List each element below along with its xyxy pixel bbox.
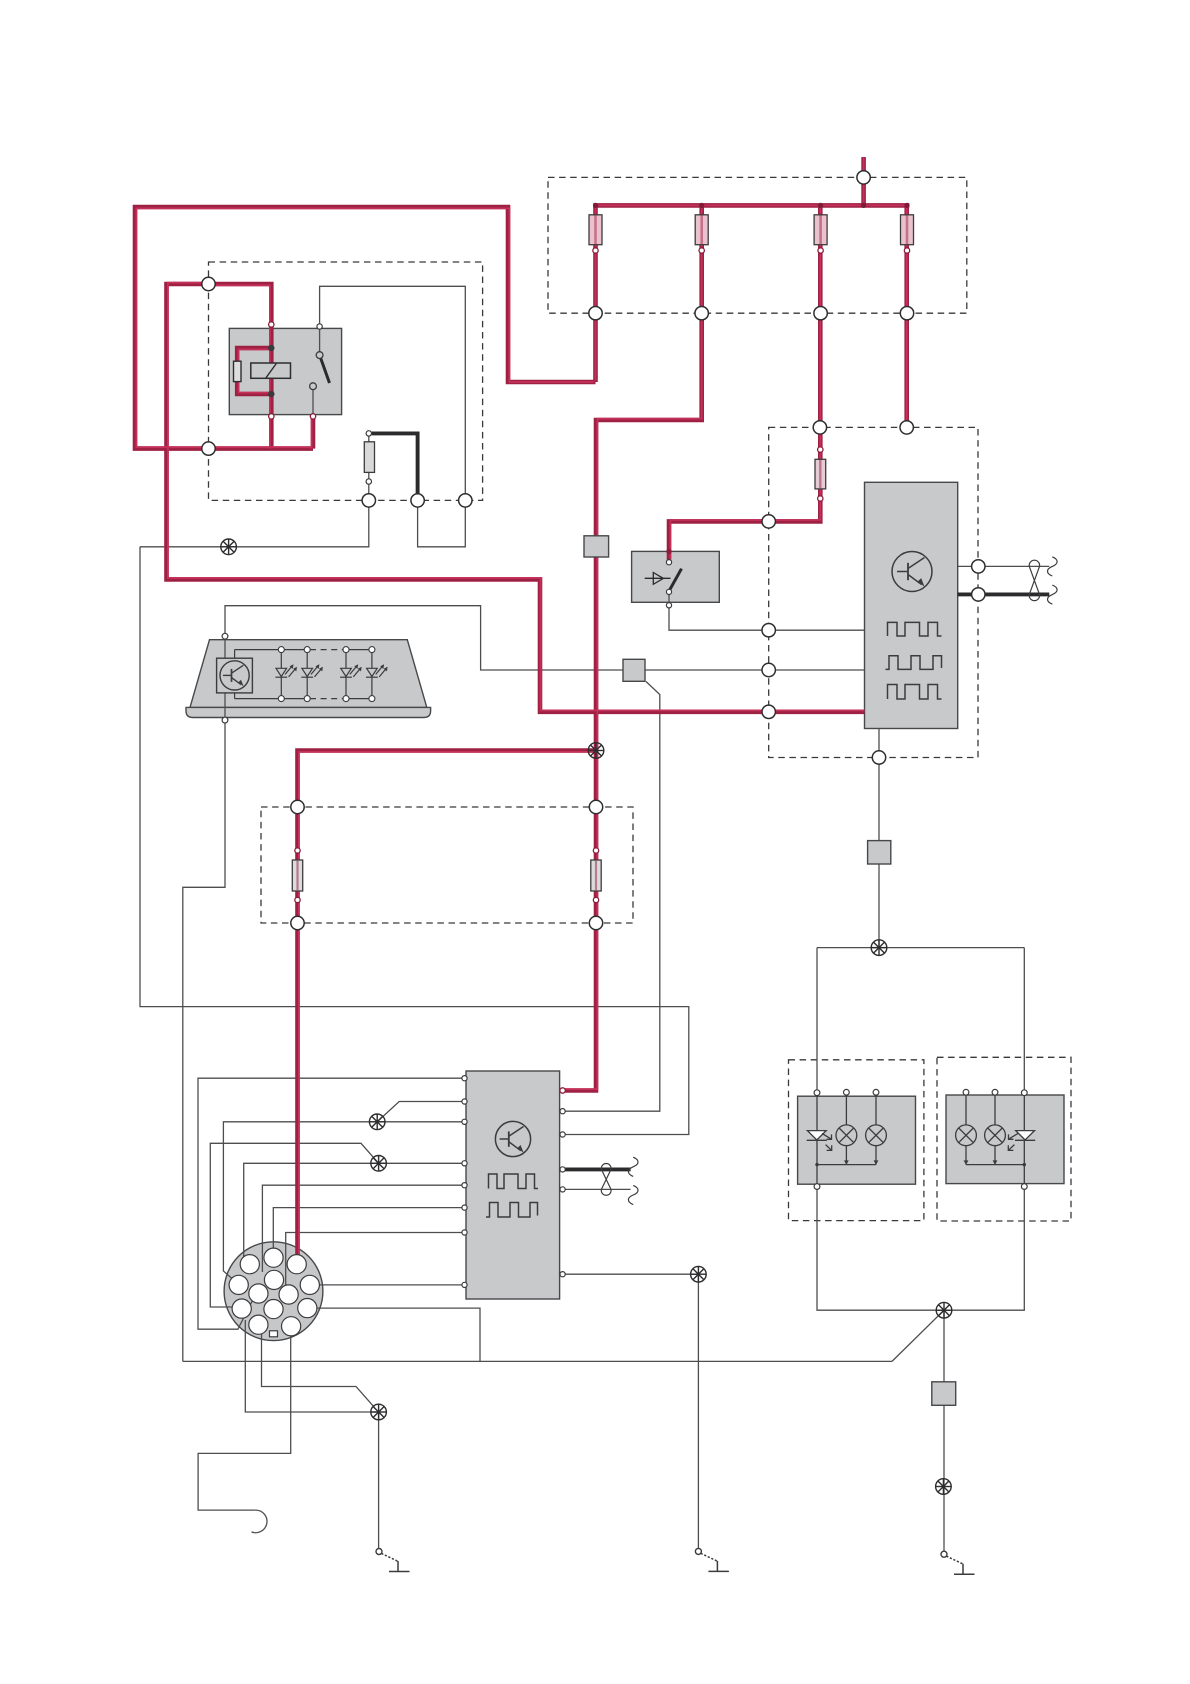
switch S1 pin top: [666, 560, 671, 565]
wire module U2 row1 to connector C1: [198, 1078, 465, 1329]
wire module U2 row3 to connector C1: [223, 1122, 464, 1279]
terminals relay enclosure bottom: [362, 494, 375, 507]
fuse bus tap dots: [593, 203, 910, 208]
wire fuse F2 column: [565, 205, 702, 1090]
wire fuse F5 bottom lead: [368, 472, 370, 497]
fuse F6 (in module enclosure): [815, 459, 826, 489]
wire splice to ground G2: [697, 1274, 699, 1548]
wire lamp splice to connector square: [943, 1310, 945, 1382]
relay switch contact: [310, 383, 317, 390]
relay coil: [251, 363, 291, 378]
fuse F2: [695, 215, 708, 245]
terminal module U1 enclosure bottom: [872, 751, 885, 764]
resistor R1 (relay suppression resistor): [234, 361, 242, 381]
square connector J2 (on LED panel line): [623, 659, 645, 681]
wire fuse box bus: [593, 203, 909, 208]
wire module U1 serial line (thin of twisted pair): [958, 565, 1050, 567]
LED panel top rail: [235, 649, 310, 651]
square connector J1 (on fuse F2 feed): [584, 536, 609, 557]
LED panel body (trapezoid): [190, 640, 427, 708]
transistor symbol in module U2: [495, 1121, 530, 1156]
wire connector square to ground G3: [943, 1405, 945, 1551]
wire switch S1 output to module U1: [669, 608, 865, 630]
switch S1 arm: [669, 569, 681, 591]
right tail lamp enclosure (dashed): [937, 1057, 1071, 1221]
transistor symbol in module U1: [892, 552, 932, 592]
turn LED right: [1016, 1131, 1035, 1140]
wire ground bus horizontal: [183, 1360, 892, 1362]
waveform glyphs module U1: [886, 622, 942, 699]
wire left bus down and across to module U2 pin (right side): [140, 547, 689, 1135]
wire ground bus diagonal up to lamp splice: [892, 1310, 944, 1361]
relay K1 body: [229, 328, 341, 414]
terminals module U1 enclosure top: [813, 421, 826, 434]
wire relay feed from terminal 30: [167, 284, 865, 712]
terminals fuse box outputs: [589, 307, 602, 320]
splice junction (fuse F5 line): [221, 539, 237, 555]
relay coil junction dot upper: [268, 345, 274, 351]
splice junction (lamp feed): [871, 940, 887, 956]
wire ground branch to connector C1: [317, 1308, 480, 1361]
wire continuation squiggle U2 thick: [628, 1157, 638, 1176]
module U2 red pin: [560, 1088, 565, 1093]
wire relay coil feed: [209, 284, 272, 449]
twisted pair symbol at module U1: [1029, 560, 1039, 600]
wire splice C to ground G1: [378, 1412, 380, 1549]
relay unit box (dashed enclosure, top left): [209, 262, 483, 500]
fuse F8 pins: [593, 848, 598, 853]
wire middle fuse branch: [298, 751, 597, 1256]
transistor symbol in LED panel: [217, 658, 253, 693]
lamp cluster R wires: [1023, 1095, 1025, 1130]
red wire highlight (inner stripe): [136, 157, 908, 1255]
terminal fuse box feed: [857, 171, 870, 184]
fuse F7 pins: [295, 848, 300, 853]
wire fuse F1 to relay loop feed: [135, 207, 596, 449]
control module U2 body (lower): [466, 1071, 560, 1299]
splice junction C (connector stubs): [371, 1404, 387, 1420]
terminals relay enclosure left: [202, 277, 215, 290]
switch actuator symbol (triangle): [645, 573, 671, 585]
relay coil junction dot lower: [268, 391, 274, 397]
wire lamp feed left drop: [816, 948, 818, 1090]
switch S1 body: [632, 551, 720, 602]
wire fuse F4 column: [904, 205, 909, 427]
wire module U2 row8 to connector C1 (hole 6): [319, 1284, 464, 1286]
wire lamp feed rail: [817, 947, 1024, 949]
wire fuse F5 to relay box terminal (thick): [372, 433, 418, 495]
connector C1 key (square hole): [270, 1331, 278, 1337]
wire U-link under relay box: [418, 507, 466, 547]
ground G2: [695, 1548, 729, 1571]
middle fuse holder enclosure (dashed): [261, 807, 633, 923]
LED D1: [275, 653, 297, 696]
fuse F7 (middle left): [292, 860, 302, 891]
wire module U2 twisted pair thick: [565, 1167, 631, 1171]
splice junction B (module U2 row 4): [371, 1156, 387, 1172]
control module enclosure (dashed, right): [769, 427, 978, 757]
switch S1 pin bottom: [666, 603, 671, 608]
round connector C1 body: [224, 1242, 323, 1341]
wire module U2 serial line (thin of twisted pair): [565, 1188, 631, 1190]
terminals middle fuse enclosure: [291, 800, 304, 813]
LED panel bottom rail: [235, 698, 310, 700]
relay switch pivot: [316, 352, 323, 359]
wire module U2 right pin2 up to square connector: [565, 682, 660, 1112]
ground G3: [941, 1551, 975, 1574]
splice junction (module U2 pin6): [691, 1266, 707, 1282]
module U2 right pins: [560, 1109, 565, 1114]
wire relay coil parallel loop: [237, 348, 271, 394]
relay switch common pin: [317, 324, 322, 329]
lamp L1: [836, 1125, 857, 1146]
wire module U1 bottom pin down to lamp splice: [878, 729, 880, 948]
wire node G1 run (fuse F5 to splice to lower left bus): [140, 507, 369, 547]
fuse F6 pins: [818, 447, 823, 452]
wire relay switch common inside relay: [319, 329, 321, 352]
control module U1 body (right): [865, 482, 958, 728]
left lamp cluster body: [798, 1096, 916, 1184]
wire module U2 row5 to connector C1: [262, 1185, 464, 1272]
wire continuation squiggle U1 thin: [1048, 557, 1058, 576]
fuse F5 (in relay enclosure): [364, 442, 374, 473]
wire lamp feed right drop: [1023, 948, 1025, 1090]
wire fuse F5 top lead: [368, 436, 370, 442]
lamp L2: [866, 1125, 887, 1146]
fuse F1: [589, 215, 602, 245]
waveform glyphs module U2: [486, 1174, 538, 1217]
wire connector C1 stub to splice C: [245, 1320, 378, 1412]
wire fuse F1 column: [593, 205, 598, 382]
fuse F8 (middle right): [591, 860, 601, 891]
wire module U2 row6 to connector C1: [273, 1208, 464, 1248]
switch S1 pivot: [666, 589, 671, 594]
square connector J3 (below module U1): [868, 841, 891, 864]
rail junction marks: [964, 1160, 969, 1165]
LED panel rail pin circles: [278, 647, 375, 702]
splice junction A (module U2 rows 2/3): [369, 1114, 385, 1130]
wire module U2 row4 to connector C1: [244, 1163, 465, 1257]
lamp cluster L pins: [814, 1090, 820, 1096]
wire relay 30 to terminal (relay switch common up and over): [320, 286, 466, 497]
wire fuse F3 column: [669, 205, 820, 559]
switch S1 red entry dot: [666, 549, 671, 554]
turn LED left: [807, 1131, 826, 1140]
wire relay contact output: [311, 414, 316, 449]
splice junction (lamp ground): [936, 1302, 952, 1318]
wire LED panel top pin to module U1: [225, 606, 865, 670]
terminals module U1 enclosure right (twisted pair): [972, 560, 985, 573]
wire module U2 row2 to splice A: [377, 1102, 464, 1122]
lamp R1: [956, 1125, 977, 1146]
fuse box (dashed enclosure, top): [548, 177, 967, 313]
wire continuation squiggle U1 thick: [1048, 585, 1058, 604]
wire connector C1 stub diagonal to splice C: [262, 1334, 375, 1408]
LED panel pins: [222, 633, 228, 639]
lamp cluster R pins: [963, 1089, 969, 1095]
fuse F3: [814, 215, 827, 245]
left tail lamp enclosure (dashed): [789, 1060, 924, 1221]
wire right lamp return: [944, 1189, 1024, 1310]
right lamp cluster body: [946, 1095, 1064, 1184]
relay switch arm: [320, 355, 330, 383]
wire splice B branch to connector C1 (hole 9): [210, 1143, 378, 1307]
wire battery feed into fuse box: [861, 157, 866, 205]
wire continuation squiggle U2 thin: [628, 1185, 638, 1204]
splice junction (above ground G3): [936, 1479, 952, 1495]
coiled wire end: [252, 1510, 267, 1533]
splice junction (red branch): [588, 743, 604, 759]
lamp cluster L wires: [816, 1095, 818, 1130]
LED D3: [340, 653, 362, 696]
wire module U2 pin6 right to splice: [565, 1273, 699, 1275]
fuse F1-F4 lower pins: [593, 248, 598, 253]
ground G1: [376, 1549, 410, 1572]
wire LED panel bottom pin to ground bus: [183, 693, 225, 1362]
fuse F5 pins: [366, 431, 371, 436]
LED D2: [301, 653, 323, 696]
wire left lamp return: [817, 1189, 944, 1310]
wire connector C1 stub to coiled end: [198, 1336, 291, 1510]
relay pins (red): [269, 322, 274, 327]
wire module U1 twisted pair thick: [958, 592, 1050, 596]
lamp R2: [985, 1125, 1006, 1146]
LED D4: [366, 653, 388, 696]
square connector J4 (above ground G3): [932, 1382, 956, 1406]
twisted pair symbol at module U2: [601, 1164, 611, 1196]
fuse F4: [901, 215, 914, 245]
wire relay contact to pin: [312, 389, 314, 414]
rail junction marks: [844, 1160, 849, 1165]
module U2 left pins: [462, 1076, 467, 1081]
switch S1 pivot-to-pin lead: [668, 594, 670, 603]
terminals module U1 enclosure left: [762, 515, 775, 528]
wire module U2 row7 to connector C1: [286, 1233, 465, 1286]
